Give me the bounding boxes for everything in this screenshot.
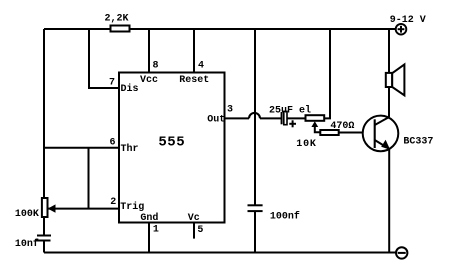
wire: left vertical net (top rail to pot and 10nf cap) — [43, 29, 45, 235]
svg-text:4: 4 — [198, 61, 204, 72]
capacitor C3 25uF electrolytic — [269, 105, 311, 125]
wire: pin 1 Gnd to ground rail — [148, 223, 150, 253]
resistor R4 470 ohm — [320, 121, 354, 135]
speaker LS1 — [386, 64, 405, 95]
svg-text:3: 3 — [227, 105, 233, 116]
wire: bottom ground rail — [44, 252, 396, 254]
IC U1 555 — [119, 73, 225, 225]
wire: pin 5 Vc stub — [193, 223, 195, 239]
svg-text:BC337: BC337 — [403, 137, 433, 148]
svg-text:Thr: Thr — [121, 143, 139, 155]
transistor Q1 BC337 — [363, 116, 434, 152]
wire: Dis branch from rail down to pin 7 — [89, 29, 119, 88]
svg-text:5: 5 — [197, 225, 203, 236]
svg-text:Reset: Reset — [179, 75, 209, 86]
wire: 10nf cap to ground rail — [43, 241, 45, 253]
svg-text:100K: 100K — [15, 209, 39, 220]
svg-text:2,2K: 2,2K — [105, 14, 129, 25]
wire: top positive supply rail — [44, 28, 396, 30]
svg-text:100nf: 100nf — [270, 211, 300, 223]
potentiometer R2 100K — [15, 198, 56, 220]
wire: 10K pot right end up to rail — [324, 29, 330, 118]
potentiometer R3 10K — [296, 115, 324, 150]
wire: pin 8 Vcc from rail to IC — [148, 29, 150, 73]
svg-text:9-12 V: 9-12 V — [390, 15, 426, 26]
wire: Vcc dropper from rail to 100nf cap — [254, 29, 256, 205]
svg-text:6: 6 — [110, 138, 116, 149]
svg-text:Trig: Trig — [120, 201, 144, 213]
svg-text:470Ω: 470Ω — [330, 121, 354, 132]
terminal: negative supply — [396, 247, 407, 258]
resistor R1 2,2K — [105, 14, 130, 32]
polarity + mark — [289, 120, 296, 127]
terminal: +9-12V supply — [390, 15, 426, 35]
wire: speaker to top rail — [388, 29, 390, 73]
svg-text:10K: 10K — [296, 139, 316, 150]
wire: 100nf cap to ground rail — [254, 211, 256, 252]
wire: 25uF cap to 10K pot — [287, 117, 306, 119]
wire: 470 ohm to transistor base — [339, 132, 375, 134]
svg-text:555: 555 — [158, 135, 185, 151]
capacitor C1 10nf — [15, 236, 51, 251]
wire: collector up to speaker — [388, 87, 390, 117]
capacitor C2 100nf — [248, 205, 300, 222]
svg-text:7: 7 — [109, 78, 115, 89]
wire: Trig line pin 2 from pot wiper — [48, 208, 120, 210]
wire: emitter to ground rail — [388, 149, 390, 253]
svg-text:2: 2 — [110, 197, 116, 208]
svg-text:Out: Out — [207, 115, 225, 126]
wire: Thr-Trig tie vertical — [88, 148, 90, 209]
svg-text:Vc: Vc — [188, 213, 200, 224]
svg-text:Dis: Dis — [121, 83, 139, 95]
svg-text:8: 8 — [153, 61, 159, 72]
svg-text:Vcc: Vcc — [140, 75, 158, 86]
wire: Out pin 3 with hop over vertical wire — [225, 113, 282, 119]
svg-text:Gnd: Gnd — [140, 212, 158, 224]
svg-text:10nf: 10nf — [15, 238, 39, 250]
wire: pin 4 Reset from rail to IC — [193, 29, 195, 73]
svg-text:1: 1 — [153, 225, 159, 236]
wire: Thr line pin 6 — [44, 147, 119, 149]
